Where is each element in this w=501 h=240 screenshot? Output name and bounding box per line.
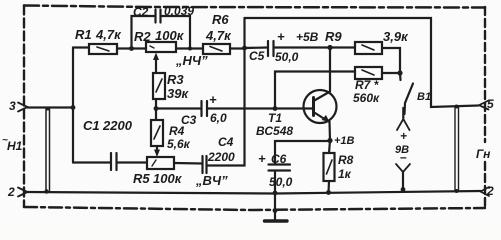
svg-text:В1: В1: [417, 91, 431, 103]
wire R1 to R2: [117, 47, 146, 49]
wire R6 right: [230, 47, 245, 49]
wire C2 right branch: [161, 16, 190, 49]
svg-text:ВС548: ВС548: [256, 124, 293, 138]
node junction input: [71, 105, 76, 110]
wire C5 left: [245, 46, 268, 49]
svg-text:6,0: 6,0: [210, 111, 227, 125]
resistor R6: [203, 44, 230, 54]
svg-text:„ВЧ”: „ВЧ”: [195, 173, 228, 188]
node rail shield left: [44, 189, 48, 193]
wire C6 to emitter: [275, 141, 330, 164]
svg-text:С2: С2: [133, 5, 149, 19]
wire to R1: [73, 46, 89, 48]
wire plug stem: [402, 108, 404, 118]
wire R3 bottom: [155, 99, 157, 109]
wire R9 right: [382, 48, 400, 73]
potentiometer R5: [147, 157, 174, 169]
wire R5 to C4: [174, 162, 202, 165]
capacitor C6: [269, 165, 291, 171]
svg-text:R3: R3: [167, 72, 184, 87]
border bottom chain line: [24, 207, 485, 210]
wire R8 top: [329, 141, 330, 154]
svg-text:5,6к: 5,6к: [167, 137, 191, 151]
wiper arrow R2: [153, 53, 159, 74]
terminal 2 right arrow: [481, 187, 490, 196]
svg-text:3,9к: 3,9к: [383, 29, 409, 44]
wire feedback vertical: [243, 18, 245, 156]
wire node to C3: [156, 107, 201, 109]
wiper arrow R5: [154, 146, 160, 157]
svg-text:R6: R6: [212, 12, 229, 27]
resistor R9: [355, 42, 382, 54]
svg-text:R7 *: R7 *: [355, 78, 380, 92]
node R2 right junction: [188, 47, 192, 51]
wire left vertical node: [72, 48, 74, 163]
wire ground stem: [274, 193, 276, 220]
border top chain line: [24, 6, 485, 8]
battery socket Y: [396, 164, 410, 189]
terminal 5 arrow: [479, 101, 489, 110]
wire C6 to ground: [274, 171, 276, 193]
svg-text:R4: R4: [169, 124, 185, 138]
shield right double line: [455, 107, 459, 192]
svg-text:R5: R5: [133, 171, 150, 186]
svg-text:2200: 2200: [207, 150, 235, 164]
svg-text:R9: R9: [325, 29, 342, 44]
wire R2 to R6: [176, 47, 203, 49]
node ground rail C6: [273, 191, 278, 196]
node emitter junction: [327, 138, 332, 143]
switch B1: [400, 73, 413, 114]
svg-text:3: 3: [9, 99, 16, 113]
svg-text:2: 2: [486, 184, 494, 198]
wire C5 to R9: [275, 46, 356, 48]
wire R7 left to base node: [275, 72, 355, 109]
svg-text:39к: 39к: [167, 86, 189, 101]
node collector junction: [327, 45, 332, 50]
wire C1 to R5: [118, 161, 148, 163]
resistor R8: [324, 153, 335, 181]
node dashed crossing: [273, 208, 278, 213]
wire emitter: [328, 122, 331, 141]
svg-text:+: +: [277, 29, 285, 44]
svg-text:+: +: [209, 92, 217, 107]
wire R7 right: [382, 72, 400, 74]
ground rail wire: [28, 191, 481, 194]
capacitor C4: [203, 156, 207, 173]
battery plug chevron: [397, 119, 410, 130]
svg-text:+5В: +5В: [296, 30, 319, 44]
node shield bottom: [455, 189, 459, 193]
svg-text:+1В: +1В: [334, 135, 355, 147]
svg-text:4,7к: 4,7к: [95, 27, 122, 42]
svg-text:С5: С5: [249, 49, 265, 63]
wire R3 to R4: [155, 109, 157, 121]
border right chain line: [484, 7, 486, 208]
resistor R3: [153, 73, 165, 99]
svg-text:С1: С1: [83, 118, 100, 133]
svg-text:Н1: Н1: [7, 139, 23, 153]
svg-text:2200: 2200: [102, 118, 133, 133]
terminal 3 arrow: [18, 103, 28, 112]
border left chain line: [23, 6, 25, 208]
svg-text:560к: 560к: [353, 91, 380, 105]
capacitor C3: [202, 101, 208, 116]
ground: [265, 219, 288, 222]
wire top output: [245, 18, 479, 107]
svg-text:100к: 100к: [155, 28, 185, 43]
svg-text:R1: R1: [75, 27, 92, 42]
node R3 bottom junction: [154, 106, 159, 111]
transistor T1: [304, 90, 337, 123]
svg-text:С4: С4: [218, 135, 234, 149]
svg-text:5: 5: [487, 97, 494, 111]
terminal 2 arrow: [18, 188, 28, 197]
svg-text:1к: 1к: [338, 167, 352, 181]
node C2 left junction: [129, 46, 134, 51]
resistor R4: [151, 120, 163, 146]
node base junction: [273, 106, 278, 111]
node shield top: [455, 105, 459, 109]
svg-text:–: –: [400, 150, 407, 164]
node shield left top: [46, 107, 50, 111]
svg-text:+: +: [400, 129, 407, 143]
node R6 C5 junction: [242, 46, 247, 51]
svg-text:2: 2: [7, 185, 15, 199]
svg-text:0,039: 0,039: [164, 4, 194, 18]
wire C3 to base: [208, 107, 313, 109]
svg-text:R8: R8: [338, 153, 354, 167]
svg-text:С6: С6: [271, 152, 287, 166]
capacitor C5: [268, 41, 274, 56]
svg-text:„НЧ”: „НЧ”: [175, 53, 208, 68]
node ground rail battery: [401, 187, 406, 192]
capacitor C1: [111, 153, 117, 170]
node ground rail R8: [326, 190, 331, 195]
resistor R7: [355, 67, 382, 79]
svg-text:50,0: 50,0: [275, 50, 299, 64]
svg-text:100к: 100к: [153, 171, 183, 186]
wire C4 right to node: [208, 156, 245, 166]
wire C1 left: [73, 161, 110, 163]
wire input 3: [28, 106, 74, 108]
potentiometer R2: [146, 42, 176, 52]
svg-text:Гн: Гн: [476, 147, 491, 161]
svg-text:50,0: 50,0: [269, 175, 293, 189]
wire C2 left branch: [132, 16, 156, 49]
wire collector vertical: [329, 48, 331, 92]
svg-text:4,7к: 4,7к: [205, 28, 232, 43]
svg-text:+: +: [258, 151, 266, 166]
node switch junction: [397, 70, 402, 75]
capacitor C2: [156, 10, 161, 23]
resistor R1: [89, 44, 117, 54]
svg-text:Т1: Т1: [268, 111, 282, 125]
shield left double line: [46, 109, 50, 191]
wire R8 bottom: [327, 181, 330, 193]
svg-text:R2: R2: [134, 29, 151, 44]
